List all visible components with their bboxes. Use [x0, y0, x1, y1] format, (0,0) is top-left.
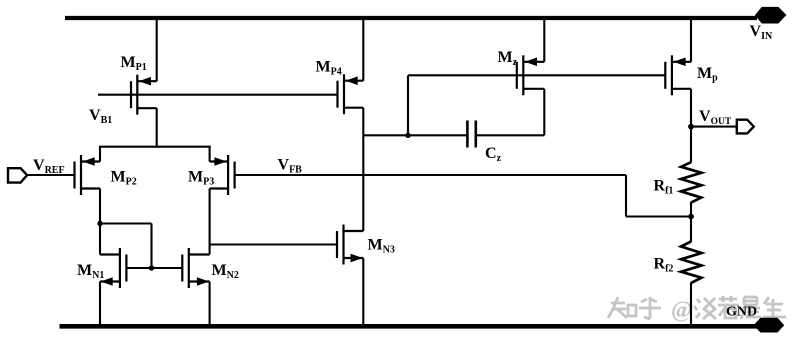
wire feedback horizontal	[626, 215, 691, 217]
wire MN2 gate lead	[152, 267, 183, 269]
wire MP2 drain	[99, 189, 101, 255]
svg-text:Rf1: Rf1	[654, 178, 674, 197]
wire Rf2 to gnd	[690, 283, 692, 326]
wire MN1 source to gnd	[99, 282, 101, 326]
transistor MN2	[182, 248, 209, 288]
wire gate bias line 2	[408, 74, 665, 76]
svg-text:MN1: MN1	[77, 262, 104, 281]
wire Mp drain	[690, 89, 692, 163]
transistor MN1	[100, 248, 126, 288]
wire MN1 gate lead	[126, 267, 151, 269]
node diff output	[97, 221, 102, 226]
wire MP3 source	[209, 147, 211, 162]
VREF port	[8, 168, 27, 182]
wire MP3 drain to MN2	[209, 189, 211, 255]
wire MN3 gate lead	[210, 243, 337, 245]
node gate drive	[405, 133, 410, 138]
svg-text:VREF: VREF	[33, 157, 65, 176]
node VOUT	[688, 124, 694, 130]
watermark	[608, 296, 786, 323]
svg-text:VB1: VB1	[89, 107, 112, 126]
svg-text:MN2: MN2	[212, 262, 239, 281]
wire Cz branch	[363, 134, 467, 136]
svg-text:VIN: VIN	[750, 23, 773, 42]
wire node to mirror gate	[100, 222, 152, 224]
transistor MP1	[131, 75, 157, 115]
VIN port	[755, 7, 787, 24]
transistor Mp	[665, 55, 691, 95]
transistor MP2	[75, 155, 101, 195]
wire MN3 source to gnd	[362, 258, 364, 325]
wire VFB line	[235, 174, 626, 176]
svg-text:VFB: VFB	[278, 157, 303, 176]
wire VREF lead	[26, 174, 75, 176]
svg-text:Mz: Mz	[498, 49, 518, 68]
wire VOUT lead	[691, 126, 737, 128]
transistor MP3	[210, 155, 235, 195]
svg-text:GND: GND	[726, 305, 757, 320]
svg-text:MP4: MP4	[316, 59, 342, 78]
transistor MN3	[337, 225, 363, 265]
transistor Mz	[517, 55, 545, 95]
wire Cz right	[476, 134, 545, 136]
wire MP4 drain to MN3	[362, 108, 364, 231]
GND port	[754, 318, 785, 333]
wire Rf1 to Rf2	[690, 202, 692, 242]
svg-text:Mp: Mp	[697, 65, 718, 84]
svg-text:MP1: MP1	[121, 54, 147, 73]
wire Mz source	[543, 16, 545, 62]
node mirror gates	[149, 265, 154, 270]
svg-text:MP3: MP3	[188, 169, 214, 188]
wire Mz drain	[543, 89, 545, 136]
GND rail	[60, 324, 758, 329]
wire node up	[407, 75, 409, 135]
wire MP1 source	[156, 16, 158, 81]
wire MP2 source	[99, 147, 101, 162]
svg-text:Rf2: Rf2	[654, 256, 674, 275]
resistor Rf2	[681, 242, 702, 284]
node feedback tap	[688, 214, 694, 220]
wire VB1 bias line	[98, 94, 338, 96]
wire MP4 source	[362, 16, 364, 81]
resistor Rf1	[681, 162, 702, 202]
VIN rail	[65, 16, 757, 20]
svg-text:VOUT: VOUT	[699, 108, 732, 127]
capacitor Cz	[467, 121, 475, 148]
wire feedback vertical	[625, 175, 627, 217]
svg-text:@: @	[671, 297, 692, 323]
wire tail	[99, 146, 211, 148]
wire MP1 drain	[156, 108, 158, 148]
svg-text:MP2: MP2	[111, 169, 137, 188]
transistor MP4	[338, 74, 364, 114]
VOUT port	[737, 120, 754, 134]
svg-text:Cz: Cz	[485, 145, 502, 164]
svg-text:MN3: MN3	[368, 237, 395, 256]
wire mirror gate vertical	[150, 224, 152, 269]
wire MN2 source to gnd	[209, 282, 211, 326]
wire Mp source	[690, 16, 692, 62]
